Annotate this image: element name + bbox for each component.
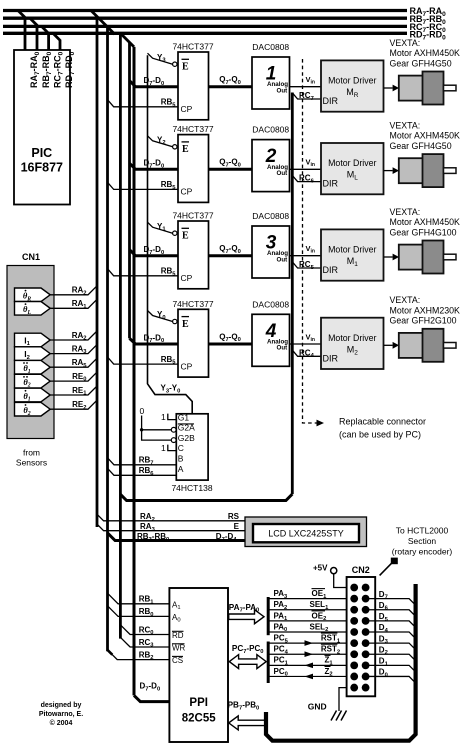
svg-text:DAC0808: DAC0808	[252, 42, 289, 52]
svg-text:CP: CP	[181, 187, 193, 197]
svg-text:© 2004: © 2004	[50, 719, 73, 727]
svg-text:WR: WR	[172, 644, 186, 653]
svg-text:Gear GFH4G100: Gear GFH4G100	[390, 227, 457, 237]
svg-text:16F877: 16F877	[21, 161, 63, 175]
svg-text:DAC0808: DAC0808	[252, 125, 289, 135]
svg-text:Gear GFH2G100: Gear GFH2G100	[390, 316, 457, 326]
svg-text:A: A	[178, 464, 184, 474]
svg-text:Gear GFH4G50: Gear GFH4G50	[390, 141, 452, 151]
svg-text:VEXTA:: VEXTA:	[390, 295, 421, 305]
svg-text:74HCT377: 74HCT377	[172, 299, 213, 309]
svg-text:PIC: PIC	[31, 146, 52, 160]
svg-text:DIR: DIR	[323, 179, 339, 189]
svg-text:82C55: 82C55	[182, 713, 216, 725]
svg-text:Sensors: Sensors	[16, 458, 47, 468]
svg-text:74HCT377: 74HCT377	[172, 124, 213, 134]
svg-text:CP: CP	[181, 273, 193, 283]
svg-text:Out: Out	[277, 87, 288, 94]
svg-text:C: C	[178, 443, 184, 453]
svg-text:LCD LXC2425STY: LCD LXC2425STY	[268, 529, 344, 539]
svg-text:74HCT138: 74HCT138	[171, 483, 212, 493]
svg-text:(can be used by PC): (can be used by PC)	[339, 430, 421, 440]
svg-text:DAC0808: DAC0808	[252, 211, 289, 221]
svg-text:E: E	[182, 62, 189, 73]
svg-text:Motor Driver: Motor Driver	[328, 333, 376, 343]
svg-text:Motor Driver: Motor Driver	[328, 245, 376, 255]
svg-text:CN2: CN2	[352, 565, 370, 575]
svg-text:designed by: designed by	[41, 702, 82, 709]
svg-text:from: from	[23, 448, 40, 458]
svg-text:Motor Driver: Motor Driver	[328, 158, 376, 168]
svg-text:Motor AXHM450K: Motor AXHM450K	[390, 217, 461, 227]
svg-text:Motor AXHM230K: Motor AXHM230K	[390, 305, 461, 315]
svg-text:E: E	[182, 319, 189, 330]
svg-text:Out: Out	[277, 345, 288, 352]
svg-text:0: 0	[140, 406, 145, 416]
svg-text:CS: CS	[172, 656, 183, 665]
svg-text:DAC0808: DAC0808	[252, 299, 289, 309]
svg-text:Motor AXHM450K: Motor AXHM450K	[390, 48, 461, 58]
svg-text:E: E	[182, 231, 189, 242]
svg-text:E: E	[234, 522, 240, 531]
svg-text:RS: RS	[228, 512, 240, 521]
svg-text:VEXTA:: VEXTA:	[390, 207, 421, 217]
svg-text:Motor Driver: Motor Driver	[328, 76, 376, 86]
svg-text:Out: Out	[277, 170, 288, 177]
svg-text:DIR: DIR	[323, 265, 339, 275]
svg-text:VEXTA:: VEXTA:	[390, 38, 421, 48]
svg-text:Replacable connector: Replacable connector	[339, 417, 426, 427]
svg-text:1: 1	[161, 412, 166, 422]
svg-text:VEXTA:: VEXTA:	[390, 120, 421, 130]
svg-text:DIR: DIR	[323, 96, 339, 106]
svg-text:Pitowarno, E.: Pitowarno, E.	[39, 711, 83, 718]
svg-text:G1: G1	[178, 412, 190, 422]
svg-text:1: 1	[161, 443, 166, 453]
svg-text:Out: Out	[277, 256, 288, 263]
svg-text:DIR: DIR	[323, 353, 339, 363]
svg-text:Motor AXHM450K: Motor AXHM450K	[390, 131, 461, 141]
svg-text:E: E	[182, 144, 189, 155]
svg-text:Gear GFH4G50: Gear GFH4G50	[390, 58, 452, 68]
svg-text:CP: CP	[181, 361, 193, 371]
svg-text:CN1: CN1	[22, 252, 40, 262]
svg-text:PPI: PPI	[189, 697, 208, 709]
svg-text:RD: RD	[172, 631, 184, 640]
svg-text:CP: CP	[181, 104, 193, 114]
svg-text:74HCT377: 74HCT377	[172, 211, 213, 221]
svg-text:Section: Section	[408, 536, 437, 546]
svg-text:B: B	[178, 454, 184, 464]
svg-text:+5V: +5V	[313, 564, 328, 573]
svg-text:G2B: G2B	[178, 433, 195, 443]
svg-text:74HCT377: 74HCT377	[172, 42, 213, 52]
svg-text:To HCTL2000: To HCTL2000	[396, 526, 449, 536]
svg-text:GND: GND	[308, 702, 327, 712]
svg-text:(rotary encoder): (rotary encoder)	[392, 547, 453, 557]
